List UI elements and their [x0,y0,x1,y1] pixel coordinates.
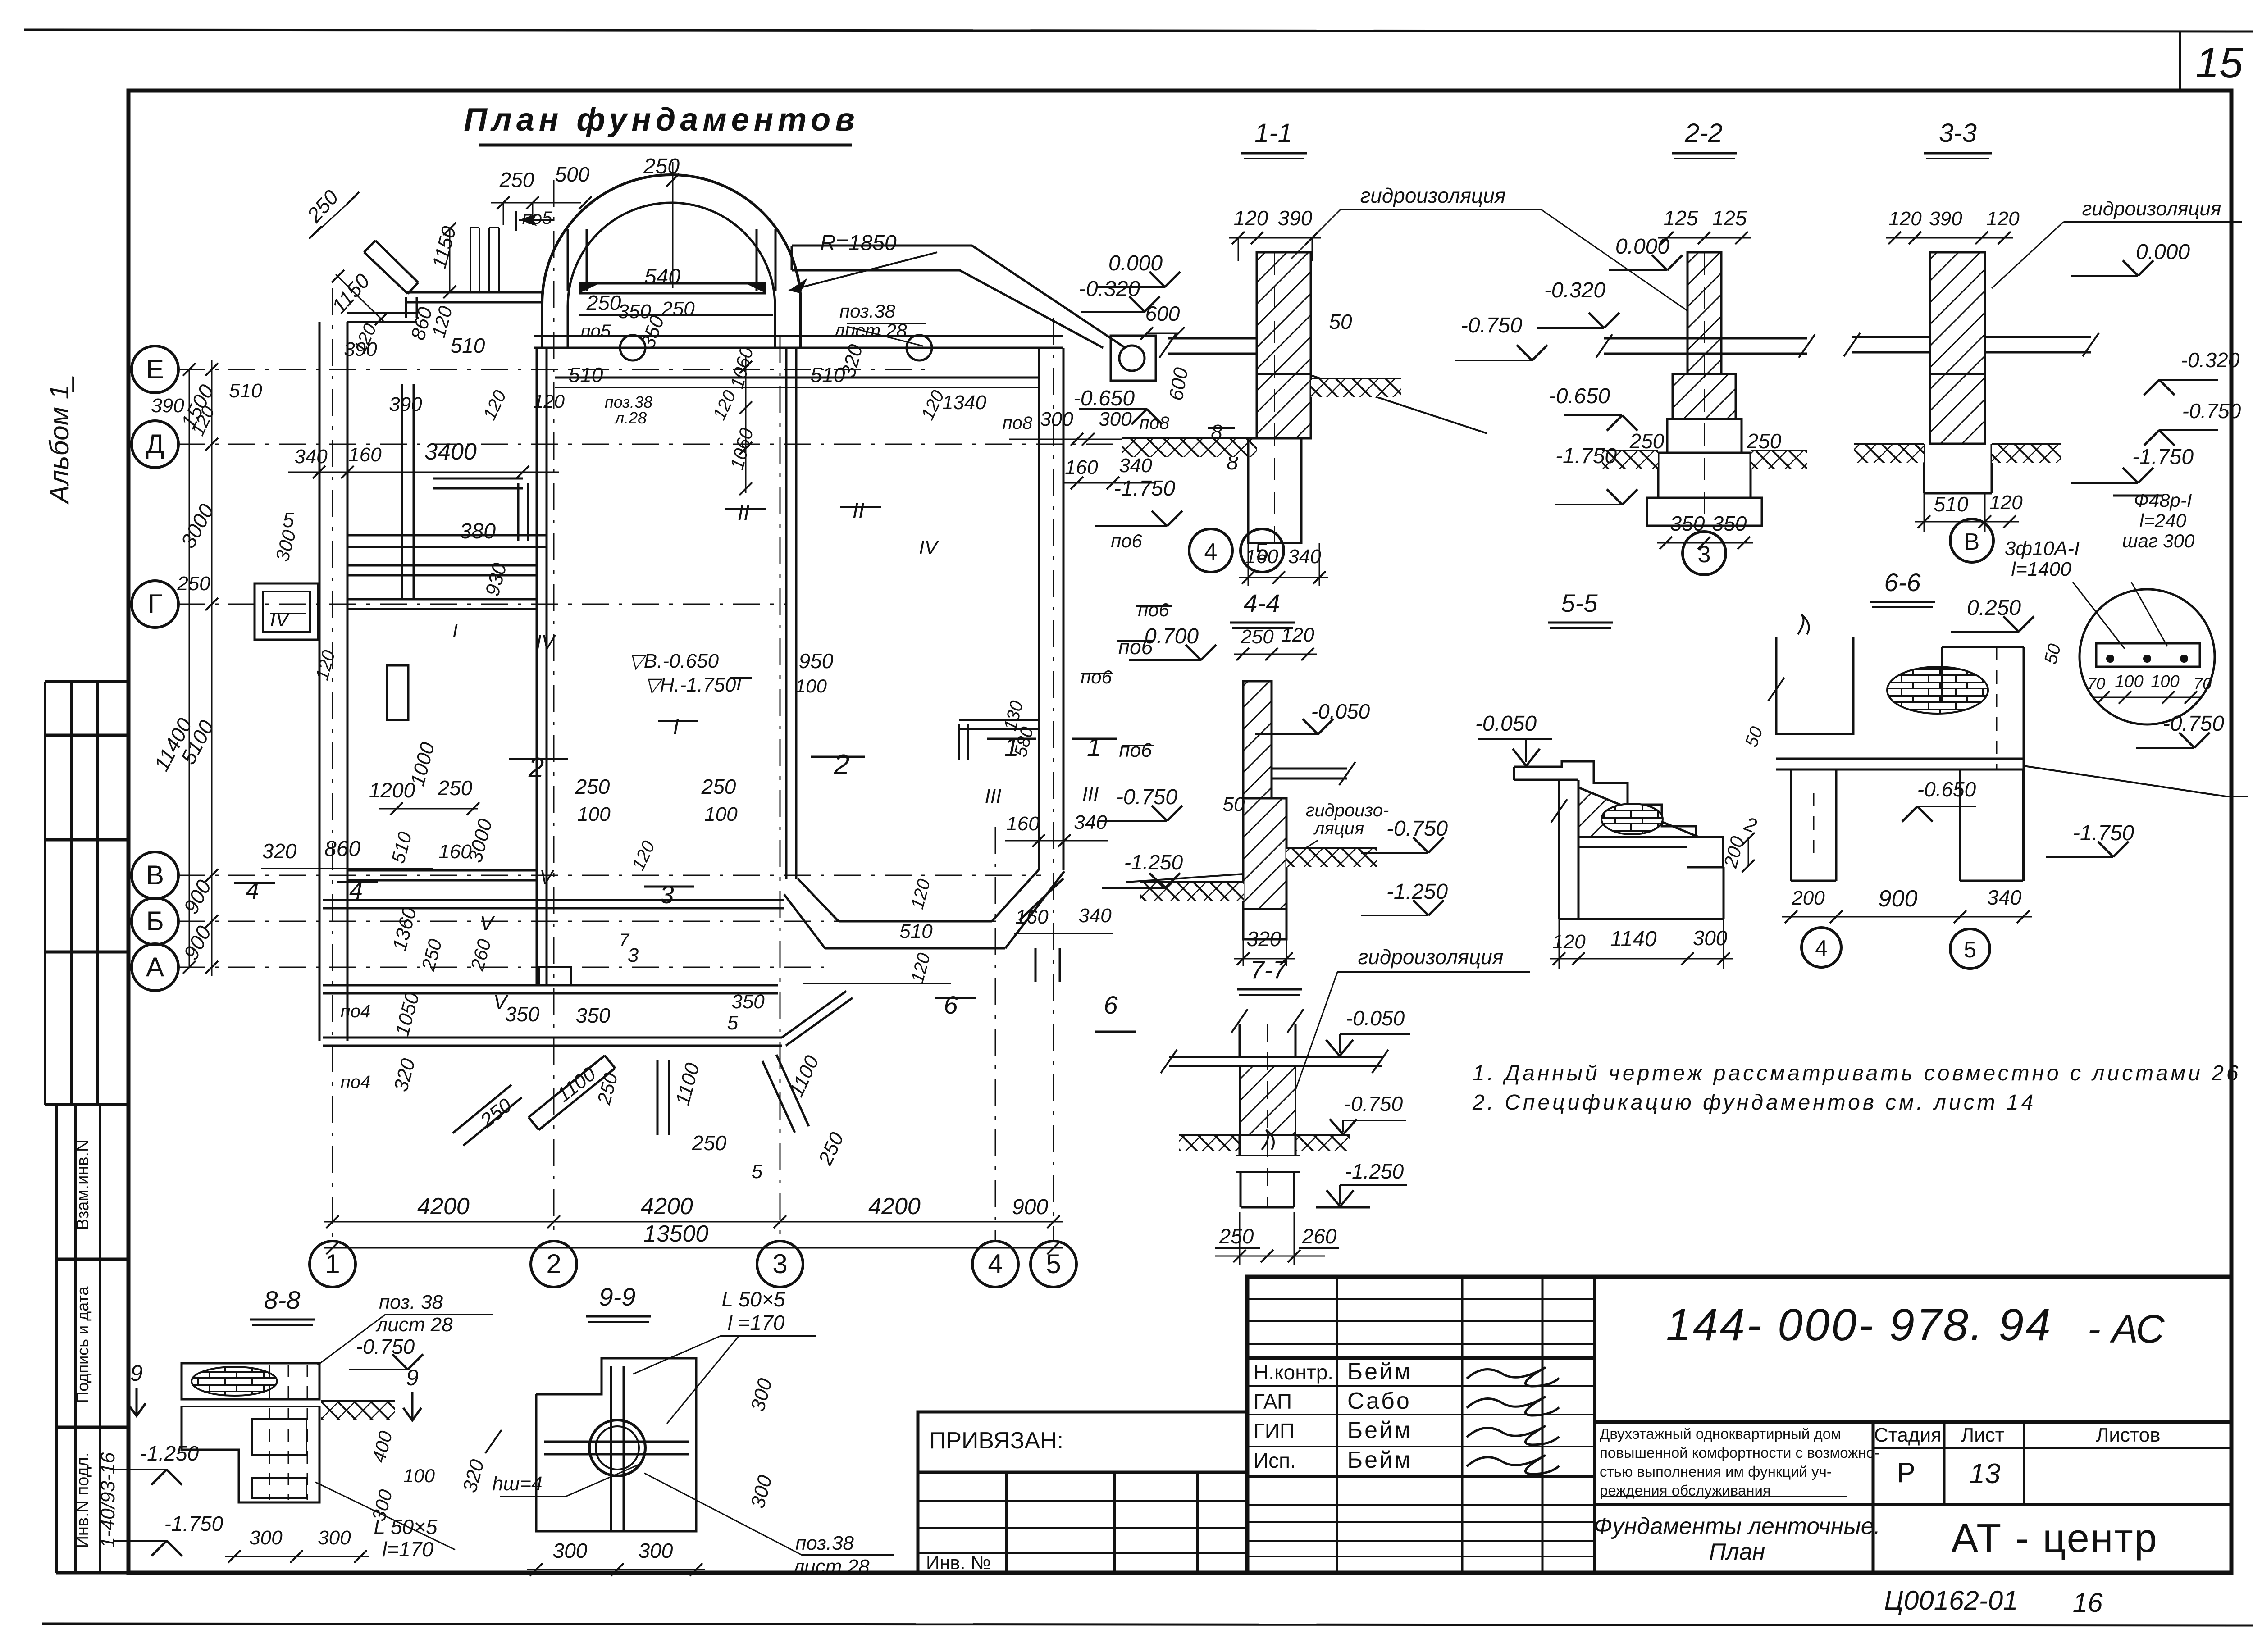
svg-text:1-40/93-16: 1-40/93-16 [97,1452,119,1548]
svg-text:по6: по6 [1118,635,1153,659]
svg-text:350: 350 [576,1004,611,1027]
svg-text:Стадия: Стадия [1874,1424,1942,1446]
svg-text:340: 340 [1074,811,1107,833]
svg-text:Бейм: Бейм [1347,1417,1412,1443]
svg-text:510: 510 [229,380,262,402]
svg-text:250: 250 [177,573,210,595]
svg-text:-1.250: -1.250 [140,1442,199,1465]
svg-text:120: 120 [628,838,659,874]
svg-text:поз. 38: поз. 38 [379,1291,443,1313]
svg-text:ГАП: ГАП [1254,1390,1292,1413]
svg-text:L 50×5: L 50×5 [374,1515,438,1538]
svg-text:50: 50 [1223,793,1245,815]
svg-text:50: 50 [1329,310,1352,333]
svg-text:250: 250 [593,1070,622,1107]
svg-text:250: 250 [1629,429,1665,453]
svg-text:3: 3 [772,1249,787,1279]
svg-text:100: 100 [577,803,611,825]
svg-text:200: 200 [1791,887,1825,909]
svg-text:1200: 1200 [369,778,415,802]
svg-text:-0.750: -0.750 [1461,314,1522,337]
svg-text:250: 250 [701,775,736,798]
svg-text:13500: 13500 [643,1221,709,1247]
svg-text:320: 320 [1247,927,1282,951]
svg-text:250: 250 [499,168,534,191]
svg-text:160: 160 [1065,456,1098,478]
svg-text:70: 70 [2194,674,2212,693]
svg-text:300: 300 [553,1539,588,1562]
svg-text:6-6: 6-6 [1884,568,1921,596]
svg-text:250: 250 [438,776,473,800]
svg-text:510: 510 [899,920,933,942]
svg-text:120: 120 [1552,931,1586,953]
svg-text:5: 5 [1256,539,1269,565]
svg-text:гидроизо-: гидроизо- [1306,801,1389,820]
svg-text:120: 120 [1234,206,1268,230]
svg-text:1: 1 [1087,733,1101,762]
svg-text:В: В [1964,529,1980,555]
svg-text:350: 350 [1712,512,1747,535]
svg-text:по5: по5 [581,321,611,341]
svg-text:4: 4 [1204,539,1218,565]
svg-text:100: 100 [795,675,827,696]
svg-text:0.250: 0.250 [1967,596,2021,620]
svg-text:4200: 4200 [868,1193,921,1220]
svg-text:4: 4 [246,877,259,904]
svg-text:300: 300 [639,1539,673,1562]
svg-text:500: 500 [555,163,590,186]
svg-text:1340: 1340 [942,391,986,414]
svg-text:0.000: 0.000 [1615,235,1669,259]
svg-text:5: 5 [752,1160,763,1183]
svg-text:250: 250 [575,775,610,798]
svg-text:-1.250: -1.250 [1124,851,1183,874]
svg-text:950: 950 [799,649,834,673]
svg-text:В: В [146,860,164,890]
svg-text:шаг 300: шаг 300 [2122,530,2195,551]
svg-text:Д: Д [146,429,164,459]
svg-text:-1.750: -1.750 [1555,444,1617,468]
svg-text:350: 350 [731,991,765,1013]
svg-text:1. Данный чертеж рассматрива: 1. Данный чертеж рассматривать совместно… [1473,1061,2241,1085]
svg-text:Р: Р [1897,1457,1915,1488]
svg-text:Взам.инв.N: Взам.инв.N [73,1140,92,1230]
svg-text:l=1400: l=1400 [2011,558,2071,580]
svg-text:250: 250 [476,1094,516,1132]
svg-text:4200: 4200 [417,1193,470,1220]
svg-text:Б: Б [146,906,164,936]
svg-text:1140: 1140 [1610,927,1657,951]
svg-text:гидроизоляция: гидроизоляция [2082,198,2221,220]
svg-text:IV: IV [270,609,290,631]
svg-text:Инв.N подл.: Инв.N подл. [73,1452,92,1548]
svg-text:А: А [146,952,164,982]
svg-text:2: 2 [834,749,849,780]
svg-text:510: 510 [569,363,603,387]
svg-text:l=170: l=170 [382,1538,433,1561]
svg-text:900: 900 [179,922,216,964]
svg-text:300: 300 [249,1527,283,1549]
svg-text:по4: по4 [341,1072,371,1092]
svg-text:V: V [539,866,554,888]
svg-text:510: 510 [1934,492,1969,516]
svg-text:l =170: l =170 [728,1311,785,1334]
svg-text:390: 390 [1278,206,1313,230]
svg-text:поз.38: поз.38 [795,1532,854,1554]
svg-text:-0.750: -0.750 [356,1335,415,1358]
svg-text:320: 320 [459,1457,488,1495]
svg-text:4: 4 [1815,936,1828,961]
svg-text:V: V [480,911,496,935]
svg-text:Листов: Листов [2096,1424,2161,1446]
svg-text:340: 340 [1078,905,1112,927]
svg-text:I: I [736,673,742,695]
svg-text:160: 160 [1006,813,1040,835]
svg-text:9: 9 [130,1361,143,1386]
svg-text:0.000: 0.000 [1108,251,1163,275]
svg-text:-0.050: -0.050 [1346,1006,1405,1030]
svg-text:250: 250 [302,185,343,227]
svg-text:Н.контр.: Н.контр. [1254,1361,1333,1384]
svg-text:3ф10А-I: 3ф10А-I [2005,537,2080,560]
svg-text:340: 340 [1119,455,1152,477]
svg-text:2: 2 [528,752,544,783]
svg-text:125: 125 [1712,206,1747,230]
svg-text:300: 300 [271,528,300,564]
svg-text:ляция: ляция [1313,819,1364,838]
svg-text:390: 390 [389,393,422,415]
svg-text:АТ - центр: АТ - центр [1951,1516,2158,1561]
svg-text:- АС: - АС [2087,1306,2165,1351]
svg-text:IV: IV [536,631,556,653]
svg-text:IV: IV [919,537,939,559]
svg-text:7-7: 7-7 [1250,956,1288,984]
svg-text:6: 6 [1104,991,1118,1019]
svg-text:540: 540 [644,265,680,289]
svg-text:1150: 1150 [327,269,374,318]
svg-text:70: 70 [2087,674,2105,693]
svg-text:5: 5 [1964,937,1976,962]
svg-text:125: 125 [1664,206,1698,230]
svg-text:1050: 1050 [391,990,424,1038]
svg-text:1100: 1100 [785,1052,824,1100]
svg-text:390: 390 [1929,208,1962,230]
svg-text:400: 400 [368,1429,397,1465]
svg-text:300: 300 [747,1473,776,1511]
svg-text:15: 15 [2195,39,2244,87]
svg-text:160: 160 [1015,906,1049,928]
svg-text:-0.750: -0.750 [2182,399,2241,423]
svg-text:510: 510 [811,363,845,387]
svg-text:III: III [985,785,1002,807]
svg-text:1-1: 1-1 [1254,118,1292,148]
svg-text:-1.750: -1.750 [2132,445,2194,469]
svg-text:по6: по6 [1081,666,1112,687]
svg-text:Бейм: Бейм [1347,1447,1412,1473]
svg-text:гидроизоляция: гидроизоляция [1360,184,1506,207]
svg-text:стью выполнения им функций уч-: стью выполнения им функций уч- [1600,1463,1832,1480]
svg-text:лист 28: лист 28 [792,1556,870,1578]
svg-text:320: 320 [262,839,297,863]
svg-text:2. Спецификацию фундаментов: 2. Спецификацию фундаментов см. лист 14 [1472,1091,2036,1115]
svg-text:Исп.: Исп. [1254,1449,1296,1472]
svg-text:510: 510 [451,334,485,357]
svg-text:160: 160 [438,841,472,863]
svg-text:Е: Е [146,354,164,384]
svg-text:II: II [853,499,865,523]
svg-text:-1.750: -1.750 [2073,821,2134,845]
svg-text:Инв. №: Инв. № [926,1552,991,1573]
svg-text:Подпись и дата: Подпись и дата [73,1286,92,1403]
svg-text:100: 100 [2151,672,2179,691]
svg-text:390: 390 [151,395,184,417]
svg-text:250: 250 [1747,429,1782,453]
svg-text:340: 340 [1288,546,1321,568]
svg-text:250: 250 [661,298,695,320]
svg-text:320: 320 [390,1056,420,1094]
svg-text:13: 13 [1970,1458,2001,1489]
svg-text:50: 50 [2040,642,2065,666]
svg-text:Двухэтажный одноквартирный дом: Двухэтажный одноквартирный дом [1600,1425,1841,1442]
svg-text:поз.38: поз.38 [839,300,896,322]
svg-text:▽В.-0.650: ▽В.-0.650 [629,650,719,672]
svg-text:120: 120 [709,387,740,423]
svg-text:300: 300 [1099,408,1132,430]
svg-text:-0.750: -0.750 [1116,785,1177,809]
svg-text:по6: по6 [1138,599,1169,620]
svg-text:120: 120 [1888,208,1922,230]
svg-text:4: 4 [988,1249,1003,1279]
svg-text:1150: 1150 [428,224,461,271]
svg-text:120: 120 [533,391,565,412]
svg-text:по6: по6 [1111,530,1142,551]
svg-text:5-5: 5-5 [1561,589,1598,617]
svg-text:Сабо: Сабо [1347,1388,1411,1414]
svg-text:-1.750: -1.750 [1114,477,1175,501]
svg-text:300: 300 [1040,408,1073,430]
svg-text:ГИП: ГИП [1254,1419,1295,1443]
svg-text:350: 350 [505,1002,540,1026]
svg-text:3: 3 [660,880,674,909]
svg-text:120: 120 [312,648,339,683]
svg-text:5: 5 [283,508,294,532]
svg-text:250: 250 [643,155,680,178]
svg-text:hш=4: hш=4 [492,1473,542,1495]
svg-text:по6: по6 [1119,739,1152,761]
svg-text:100: 100 [704,803,738,825]
svg-text:900: 900 [1012,1195,1048,1219]
svg-text:3: 3 [628,944,639,966]
svg-text:-0.050: -0.050 [1311,700,1370,723]
svg-text:Бейм: Бейм [1347,1359,1412,1385]
svg-text:л.28: л.28 [614,409,647,427]
svg-text:144- 000- 978. 94: 144- 000- 978. 94 [1666,1300,2052,1350]
svg-text:0.000: 0.000 [2136,240,2190,264]
svg-text:План: План [1709,1539,1765,1565]
svg-text:50: 50 [1742,724,1767,750]
svg-text:8-8: 8-8 [264,1286,301,1314]
svg-text:390: 390 [344,338,377,360]
svg-text:3400: 3400 [424,439,477,465]
svg-text:лист 28: лист 28 [375,1314,453,1336]
svg-text:1100: 1100 [671,1060,704,1108]
svg-text:План фундаментов: План фундаментов [464,102,859,138]
svg-text:по4: по4 [341,1001,371,1021]
svg-text:120: 120 [908,877,935,911]
svg-text:4-4: 4-4 [1244,589,1280,617]
svg-text:III: III [1082,783,1099,806]
svg-text:Фундаменты ленточные.: Фундаменты ленточные. [1594,1513,1880,1539]
svg-text:▽Н.-1.750: ▽Н.-1.750 [645,674,736,696]
svg-text:-1.250: -1.250 [1345,1160,1404,1183]
svg-text:120: 120 [1281,624,1314,646]
svg-text:9-9: 9-9 [599,1283,636,1311]
svg-text:-0.320: -0.320 [1544,278,1605,302]
svg-text:Альбом 1̲: Альбом 1̲ [44,376,74,505]
svg-text:260: 260 [1302,1224,1337,1248]
svg-text:ПРИВЯЗАН:: ПРИВЯЗАН: [929,1428,1063,1454]
svg-text:340: 340 [294,446,328,468]
svg-text:Г: Г [148,589,163,619]
svg-text:4200: 4200 [641,1193,693,1220]
svg-text:1060: 1060 [726,344,757,391]
svg-text:120: 120 [1986,208,2020,230]
svg-text:380: 380 [460,519,496,543]
svg-text:2: 2 [1741,813,1760,837]
svg-text:-0.320: -0.320 [2181,348,2240,372]
svg-text:I: I [673,715,679,739]
svg-text:6: 6 [944,991,958,1019]
svg-text:1360: 1360 [388,905,421,953]
svg-text:120: 120 [908,951,935,985]
svg-text:-0.750: -0.750 [1344,1092,1403,1115]
svg-text:340: 340 [1987,886,2022,909]
svg-text:300: 300 [747,1376,776,1414]
svg-text:2: 2 [546,1249,561,1279]
svg-text:-0.650: -0.650 [1549,384,1610,408]
svg-text:-1.250: -1.250 [1386,880,1448,904]
svg-text:300: 300 [318,1527,351,1549]
svg-text:-0.650: -0.650 [1073,387,1135,410]
svg-text:II: II [738,501,750,525]
svg-text:250: 250 [586,291,621,314]
svg-text:Ц00162-01: Ц00162-01 [1884,1585,2018,1616]
svg-text:-0.650: -0.650 [1917,778,1976,801]
svg-text:860: 860 [324,837,360,861]
svg-text:l=240: l=240 [2139,510,2187,531]
svg-text:2-2: 2-2 [1684,118,1723,148]
svg-text:16: 16 [2073,1588,2103,1618]
svg-text:гидроизоляция: гидроизоляция [1358,945,1504,969]
svg-text:120: 120 [479,387,510,423]
svg-text:1060: 1060 [726,425,757,472]
svg-text:по8: по8 [1003,413,1033,433]
svg-text:510: 510 [387,829,416,865]
svg-text:250: 250 [1219,1224,1254,1248]
svg-text:3: 3 [1698,542,1711,568]
svg-text:I: I [452,620,458,642]
svg-text:3-3: 3-3 [1939,118,1977,148]
svg-text:повышенной комфортности с возм: повышенной комфортности с возможно- [1600,1444,1879,1461]
svg-text:900: 900 [1879,886,1918,912]
svg-text:5: 5 [727,1012,739,1034]
svg-text:900: 900 [179,876,216,918]
svg-text:300: 300 [1693,926,1728,950]
svg-text:-0.750: -0.750 [1386,817,1448,841]
svg-text:-0.750: -0.750 [2163,712,2224,736]
svg-text:R=1850: R=1850 [820,231,897,255]
svg-text:600: 600 [1165,366,1192,402]
svg-text:-0.050: -0.050 [1475,712,1537,736]
svg-text:-1.750: -1.750 [164,1512,223,1535]
svg-text:160: 160 [348,444,382,466]
svg-text:250: 250 [692,1131,727,1155]
svg-text:Ф48р-I: Ф48р-I [2134,490,2192,511]
svg-text:250: 250 [814,1129,848,1169]
svg-text:100: 100 [2115,672,2143,691]
svg-text:250: 250 [1240,626,1274,648]
svg-text:L 50×5: L 50×5 [721,1288,785,1311]
svg-text:-0.320: -0.320 [1079,277,1140,301]
svg-text:100: 100 [403,1465,435,1486]
svg-text:120: 120 [1989,492,2023,514]
svg-text:Лист: Лист [1961,1424,2004,1446]
